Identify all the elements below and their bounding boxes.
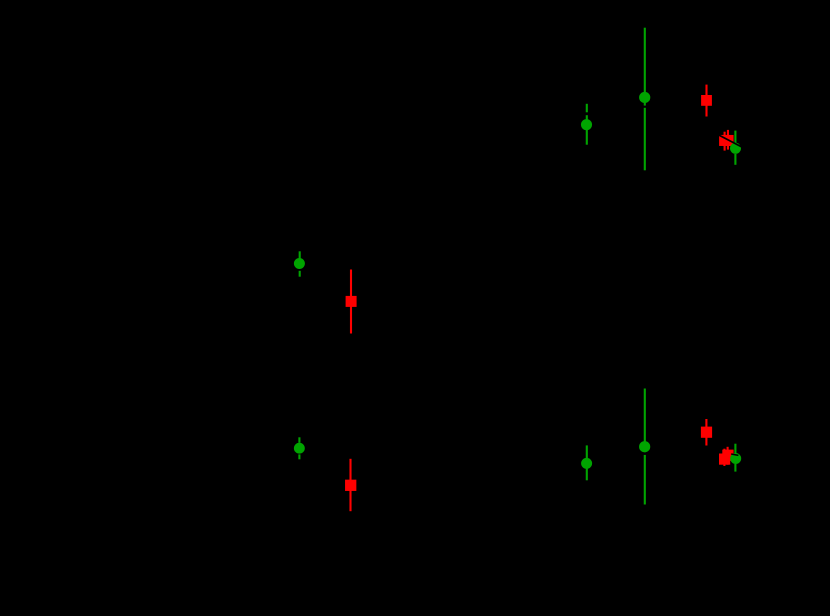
red point R1 (x~706) error bar: [705, 85, 707, 117]
red point R2b (cluster) error bar: [727, 130, 729, 150]
green point G0 circle marker: [581, 119, 592, 130]
red point R2a (cluster) error bar: [724, 132, 726, 151]
red point R5 (x~706) error bar: [705, 419, 707, 446]
red point R6b (cluster) error bar: [723, 449, 725, 466]
green point G3 (cluster, x~735) error bar upper segment: [734, 131, 736, 144]
red point R6a square marker: [722, 450, 733, 461]
green point G7 error bar lower segment: [734, 464, 736, 472]
green point G1 error bar lower segment: [299, 271, 301, 277]
green point G0 (x~587) error bar segment a: [586, 104, 588, 113]
green point G0 error bar segment b: [586, 115, 588, 120]
green point G2 circle marker: [639, 92, 650, 103]
green point G1 circle marker: [294, 258, 305, 269]
green point G4 circle marker: [294, 443, 305, 454]
red point R6b square marker: [719, 454, 730, 465]
green point G4 error bar lower segment: [298, 454, 300, 459]
black short line D2 over bottom cluster green circle: [731, 454, 738, 455]
black diagonal line D1 over top cluster: [718, 135, 742, 147]
green point G7 circle marker: [730, 453, 741, 464]
green point G5 circle marker: [581, 458, 592, 469]
red point RL1 square marker: [346, 296, 357, 307]
green point G6 error bar lower segment: [644, 455, 646, 505]
green point G3 circle marker: [730, 143, 741, 154]
red point RL2 (left, x~350) error bar: [349, 459, 351, 511]
green point G6 (x~645, long bar) error bar upper segment: [644, 389, 646, 453]
green point G5 (x~587) error bar: [586, 445, 588, 480]
green point G7 (cluster, x~735) error bar upper segment: [734, 444, 736, 454]
green point G0 error bar segment c (below marker): [586, 130, 588, 145]
green point G2 error bar lower segment: [644, 108, 646, 171]
green point G1 (left, x~300) error bar upper segment: [299, 251, 301, 258]
red point R5 square marker: [701, 427, 712, 438]
red point R2a square marker: [719, 135, 730, 146]
green point G6 circle marker: [639, 441, 650, 452]
red point RL1 (left, x~351) error bar: [350, 270, 352, 334]
green point G3 error bar lower segment: [734, 154, 736, 165]
red point R1 square marker: [701, 95, 712, 106]
red point R6a (cluster) error bar: [727, 447, 729, 465]
green point G2 (x~645, long bar) error bar upper segment: [644, 28, 646, 106]
red point RL2 square marker: [345, 480, 356, 491]
red point R2b square marker: [723, 135, 734, 146]
green point G4 (left, x~299) error bar upper segment: [298, 437, 300, 443]
